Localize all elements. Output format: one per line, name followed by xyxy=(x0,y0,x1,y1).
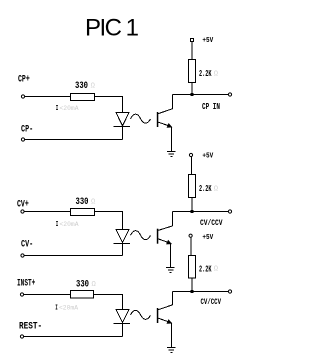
wire R6 to node xyxy=(191,278,193,292)
Q3 emitter slant xyxy=(158,318,172,323)
svg-text:2.2K: 2.2K xyxy=(199,264,212,275)
wire collector node to output circuit 3 xyxy=(173,291,229,293)
optical coupling squiggle U3 xyxy=(131,310,151,319)
svg-text:<20mA: <20mA xyxy=(59,305,78,312)
optocoupler U3 LED xyxy=(116,310,129,323)
Q1 emitter slant xyxy=(158,122,172,127)
wire CV+ to R3 xyxy=(24,211,70,213)
Q3 emitter wire down xyxy=(171,323,173,347)
svg-text:Ω: Ω xyxy=(214,185,218,193)
resistor R3 body xyxy=(71,209,95,216)
wire R2 to node xyxy=(191,83,193,95)
resistor R6 body (2.2K) xyxy=(189,256,196,279)
wire R4 to node xyxy=(191,198,193,212)
terminal INST+ xyxy=(20,293,23,296)
svg-text:+5V: +5V xyxy=(202,153,213,161)
svg-text:I: I xyxy=(56,221,59,229)
junction dot circuit 2 xyxy=(191,210,194,213)
terminal CV- xyxy=(21,254,24,257)
wire INST+ to R5 xyxy=(24,294,71,296)
svg-text:Ω: Ω xyxy=(214,70,218,78)
wire CP- return xyxy=(25,139,123,141)
wire +5V to R4 xyxy=(191,157,193,175)
terminal CV/CCV circuit 3 xyxy=(228,290,231,293)
wire LED cathode down circuit 3 xyxy=(122,324,124,337)
LED cathode bar circuit 3 xyxy=(114,323,131,325)
svg-text:2.2K: 2.2K xyxy=(199,183,212,194)
svg-text:+5V: +5V xyxy=(202,37,213,45)
terminal CP+ xyxy=(21,95,24,98)
svg-text:<20mA: <20mA xyxy=(60,105,79,112)
svg-text:CP IN: CP IN xyxy=(202,102,220,112)
terminal CP IN xyxy=(228,93,231,96)
phototransistor Q2 base bar xyxy=(157,229,159,244)
junction dot circuit 1 xyxy=(191,93,194,96)
wire +5V to R6 xyxy=(190,237,192,255)
terminal CV+ xyxy=(21,210,24,213)
svg-text:CV-: CV- xyxy=(21,239,33,251)
wire R1 to LED anode xyxy=(95,97,123,113)
Q1 collector wire up xyxy=(172,95,174,109)
resistor R2 body (2.2K) xyxy=(189,60,196,83)
wire collector node to output circuit 2 xyxy=(173,211,229,213)
Q3 collector slant xyxy=(158,305,173,310)
Q1 emitter wire down xyxy=(171,127,173,151)
Q3 emitter arrowhead xyxy=(167,319,173,324)
LED cathode bar circuit 2 xyxy=(114,243,131,245)
wire R5 to LED anode xyxy=(94,295,123,310)
svg-text:INST+: INST+ xyxy=(17,278,35,290)
wire CV- return xyxy=(24,255,122,257)
svg-text:CP+: CP+ xyxy=(18,73,30,85)
junction dot circuit 3 xyxy=(191,290,194,293)
svg-text:Ω: Ω xyxy=(214,266,218,274)
optocoupler U1 LED xyxy=(116,113,129,126)
svg-text:PIC 1: PIC 1 xyxy=(85,15,139,42)
svg-text:Ω: Ω xyxy=(91,82,95,90)
wire R3 to LED anode xyxy=(95,212,123,230)
svg-text:330: 330 xyxy=(76,197,89,208)
Q1 emitter arrowhead xyxy=(167,123,173,128)
Q1 collector slant xyxy=(158,109,173,114)
optical coupling squiggle U2 xyxy=(131,231,151,240)
wire collector node to output xyxy=(173,94,229,96)
svg-text:330: 330 xyxy=(76,279,89,290)
svg-text:CP-: CP- xyxy=(21,124,33,136)
svg-text:CV/CCV: CV/CCV xyxy=(201,298,222,307)
svg-text:CV+: CV+ xyxy=(17,199,29,211)
optical coupling squiggle U1 xyxy=(131,114,151,123)
Q2 emitter wire down xyxy=(170,244,172,268)
svg-text:Ω: Ω xyxy=(92,281,96,289)
ground GND2 xyxy=(166,268,175,273)
phototransistor Q1 base bar xyxy=(157,112,159,127)
Q2 collector wire up xyxy=(172,212,174,226)
svg-text:CV/CCV: CV/CCV xyxy=(200,219,223,228)
ground GND3 xyxy=(167,348,176,353)
terminal CV/CCV xyxy=(228,210,231,213)
phototransistor Q3 base bar xyxy=(157,308,159,323)
svg-text:+5V: +5V xyxy=(202,234,213,242)
wire CP+ to R1 xyxy=(25,96,71,98)
ground GND1 xyxy=(167,152,176,157)
optocoupler U2 LED xyxy=(116,230,129,243)
LED cathode bar xyxy=(114,126,131,128)
svg-text:<20mA: <20mA xyxy=(60,221,79,228)
wire +5V to R2 xyxy=(191,42,193,60)
Q2 emitter slant xyxy=(158,239,172,244)
svg-text:REST-: REST- xyxy=(19,321,42,333)
Q3 collector wire up xyxy=(172,292,174,305)
wire REST- return xyxy=(24,336,123,338)
svg-text:I: I xyxy=(55,305,58,313)
wire LED cathode down xyxy=(122,127,124,140)
Q2 collector slant xyxy=(158,226,173,231)
resistor R5 body xyxy=(71,291,94,299)
resistor R1 body xyxy=(71,94,95,101)
resistor R4 body (2.2K) xyxy=(189,175,196,198)
terminal +5V (circle) circuit 2 xyxy=(189,153,192,156)
wire LED cathode down circuit 2 xyxy=(122,244,124,256)
terminal +5V (circle) circuit 3 xyxy=(189,234,192,237)
Q2 emitter arrowhead xyxy=(166,240,172,245)
svg-text:I: I xyxy=(56,105,59,113)
svg-text:Ω: Ω xyxy=(91,198,95,206)
terminal +5V (square) circuit 1 xyxy=(191,39,194,42)
terminal REST- xyxy=(20,335,23,338)
terminal CP- xyxy=(21,138,24,141)
svg-text:330: 330 xyxy=(75,81,88,92)
svg-text:2.2K: 2.2K xyxy=(199,68,212,79)
